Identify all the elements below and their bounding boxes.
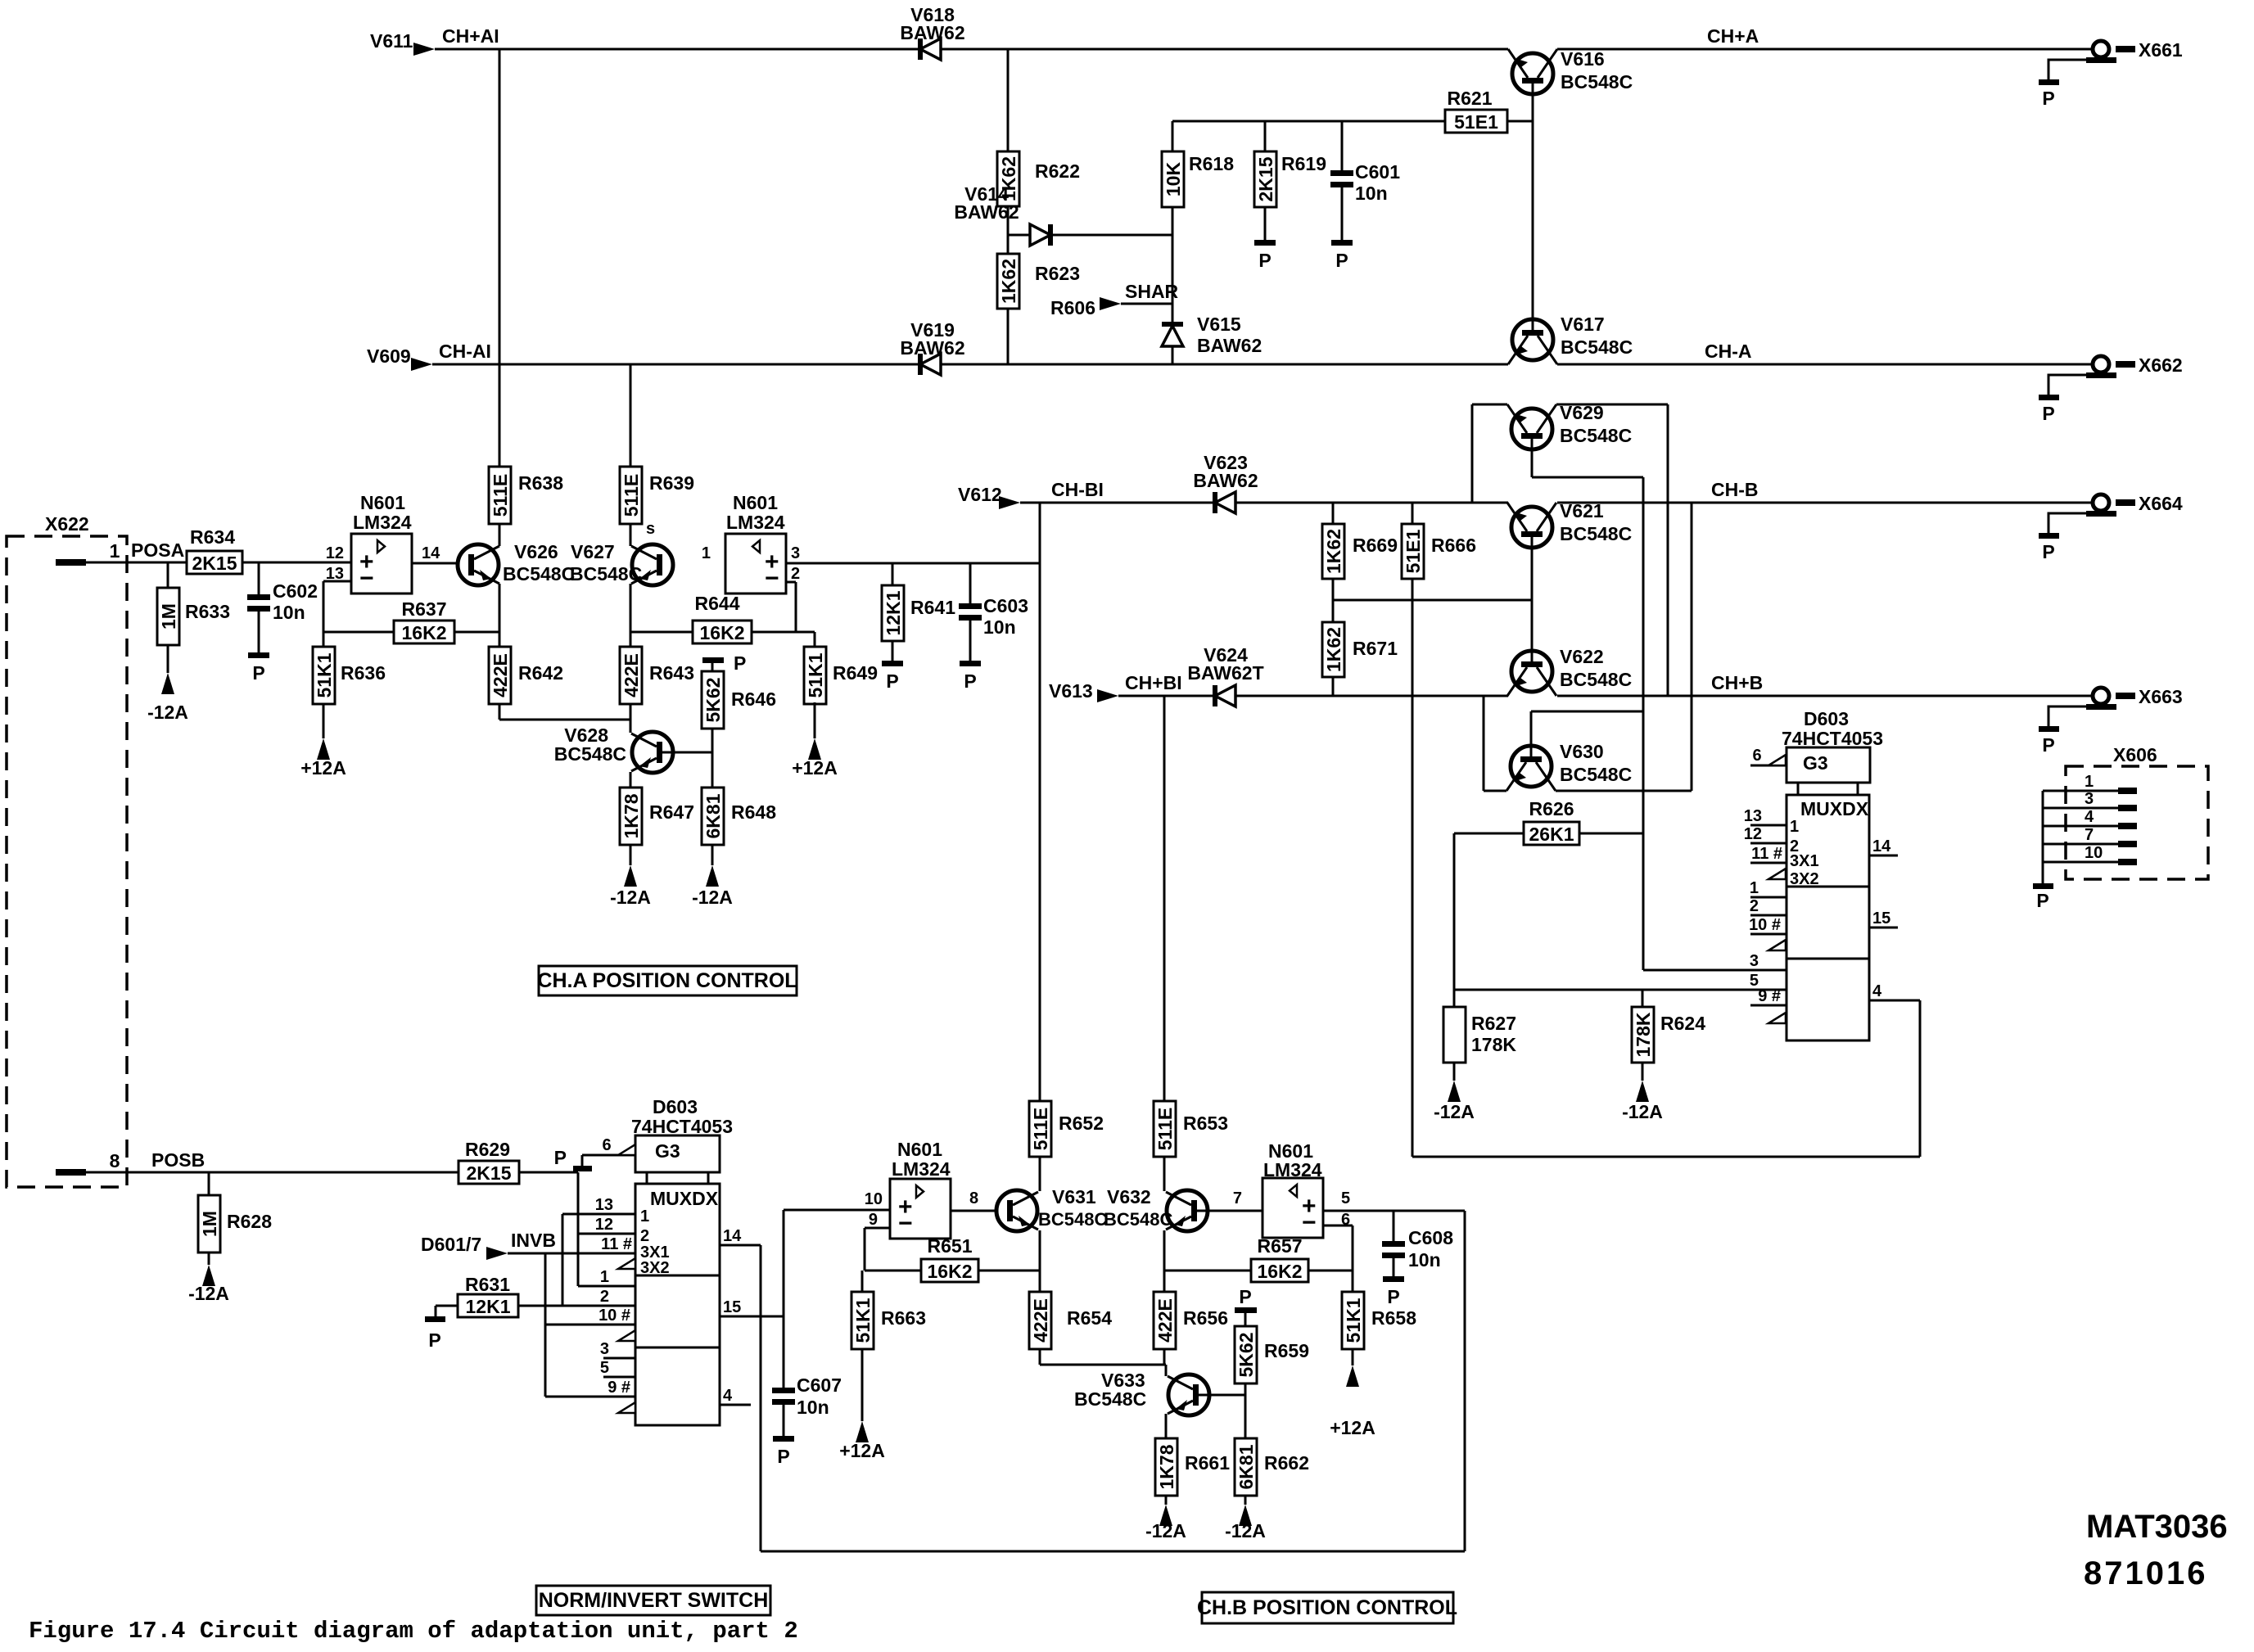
wire output 8 bbox=[951, 1210, 996, 1212]
wire bbox=[242, 562, 351, 564]
wire V631 emitter bbox=[1039, 1230, 1041, 1271]
svg-text:3X2: 3X2 bbox=[640, 1259, 670, 1277]
svg-text:R644: R644 bbox=[695, 593, 740, 614]
pin 13 bbox=[1750, 824, 1786, 827]
pin 9 bbox=[1750, 1004, 1786, 1007]
wire big loop bottom bbox=[1412, 1156, 1920, 1158]
svg-text:N601: N601 bbox=[733, 492, 778, 513]
resistor R662 6K81 bbox=[1235, 1438, 1257, 1496]
wire bbox=[1172, 346, 1174, 364]
power -12A bbox=[202, 1265, 215, 1286]
power -12A bbox=[1239, 1505, 1252, 1526]
svg-text:511E: 511E bbox=[490, 474, 511, 517]
power +12A bbox=[1346, 1365, 1359, 1387]
connector X664 bbox=[2093, 494, 2109, 511]
svg-text:CH+AI: CH+AI bbox=[442, 25, 499, 47]
svg-text:P: P bbox=[2042, 734, 2054, 756]
wire INVB to pin 11 bbox=[508, 1253, 635, 1255]
wire V632 base to op-amp pin 7 bbox=[1191, 1210, 1263, 1212]
resistor R661 1K78 bbox=[1155, 1438, 1177, 1496]
resistor R642 422E bbox=[489, 647, 511, 704]
svg-text:−: − bbox=[898, 1210, 913, 1237]
svg-text:12: 12 bbox=[595, 1216, 613, 1234]
svg-text:R647: R647 bbox=[649, 801, 694, 823]
svg-text:10 #: 10 # bbox=[1749, 916, 1781, 934]
svg-text:R631: R631 bbox=[465, 1274, 510, 1295]
pin 15 bbox=[1869, 927, 1898, 929]
ground P bbox=[2033, 883, 2053, 889]
svg-text:V609: V609 bbox=[367, 345, 411, 367]
svg-text:R626: R626 bbox=[1529, 798, 1574, 819]
svg-text:BC548C: BC548C bbox=[570, 563, 642, 585]
svg-text:1K78: 1K78 bbox=[1156, 1444, 1177, 1489]
svg-text:51K1: 51K1 bbox=[805, 652, 826, 697]
pin 8 POSB bbox=[56, 1169, 86, 1176]
svg-text:BC548C: BC548C bbox=[1038, 1209, 1107, 1230]
pin 12 bbox=[1750, 842, 1786, 845]
svg-text:R666: R666 bbox=[1431, 535, 1476, 556]
pin 3 X606 bbox=[2043, 807, 2118, 810]
svg-text:R653: R653 bbox=[1183, 1113, 1228, 1134]
svg-text:12: 12 bbox=[326, 544, 344, 562]
svg-text:16K2: 16K2 bbox=[402, 622, 447, 643]
resistor R623 1K62 bbox=[997, 254, 1019, 309]
wire bbox=[499, 704, 501, 720]
svg-text:14: 14 bbox=[723, 1227, 742, 1245]
svg-text:BAW62: BAW62 bbox=[900, 337, 964, 359]
wire V633 emitter bbox=[1165, 1414, 1168, 1438]
pin 1 POSA bbox=[56, 559, 86, 566]
svg-text:BC548C: BC548C bbox=[1560, 425, 1632, 446]
svg-text:10 #: 10 # bbox=[599, 1307, 630, 1325]
svg-text:V627: V627 bbox=[571, 541, 615, 562]
svg-text:V617: V617 bbox=[1561, 314, 1605, 335]
svg-text:3X1: 3X1 bbox=[1790, 852, 1819, 870]
svg-text:-12A: -12A bbox=[188, 1283, 229, 1304]
wire top feedback rail bbox=[1172, 120, 1446, 123]
resistor R653 511E bbox=[1154, 1101, 1176, 1157]
svg-text:2: 2 bbox=[600, 1288, 609, 1306]
svg-text:1: 1 bbox=[2085, 773, 2094, 791]
ground P bbox=[773, 1436, 794, 1442]
svg-text:V630: V630 bbox=[1560, 741, 1604, 762]
ground P bbox=[248, 652, 269, 658]
wire bbox=[1164, 1270, 1251, 1272]
svg-text:V611: V611 bbox=[370, 30, 413, 52]
svg-text:R634: R634 bbox=[190, 526, 235, 548]
svg-text:10: 10 bbox=[865, 1190, 883, 1208]
resistor R633 1M bbox=[167, 562, 169, 588]
wire pin13 bbox=[323, 580, 351, 583]
svg-text:CH+A: CH+A bbox=[1707, 25, 1759, 47]
svg-text:74HCT4053: 74HCT4053 bbox=[631, 1116, 733, 1137]
capacitor C607 10n bbox=[772, 1388, 795, 1393]
svg-text:+12A: +12A bbox=[792, 757, 838, 779]
svg-text:1K62: 1K62 bbox=[998, 259, 1019, 304]
resistor R648 6K81 bbox=[702, 788, 724, 845]
svg-text:BAW62: BAW62 bbox=[1197, 335, 1262, 356]
wire V629 base bbox=[1531, 439, 1534, 477]
svg-text:CH+B: CH+B bbox=[1711, 672, 1763, 693]
svg-text:BAW62T: BAW62T bbox=[1187, 662, 1263, 684]
svg-text:R661: R661 bbox=[1185, 1452, 1230, 1474]
svg-text:422E: 422E bbox=[490, 653, 511, 697]
svg-text:4: 4 bbox=[723, 1387, 733, 1405]
svg-text:P: P bbox=[1387, 1286, 1399, 1307]
svg-text:15: 15 bbox=[1872, 910, 1890, 928]
power -12A bbox=[706, 865, 719, 887]
svg-text:51E1: 51E1 bbox=[1454, 111, 1498, 133]
connector X663 bbox=[2093, 688, 2109, 704]
power -12A bbox=[161, 673, 174, 694]
svg-text:V612: V612 bbox=[958, 484, 1002, 505]
capacitor C601 10n bbox=[1341, 121, 1344, 170]
resistor R639 511E bbox=[620, 467, 642, 524]
wire bbox=[1244, 1383, 1247, 1438]
svg-text:8: 8 bbox=[110, 1150, 120, 1171]
svg-text:14: 14 bbox=[1872, 837, 1891, 855]
transistor V621 BC548C bbox=[1511, 507, 1552, 548]
svg-text:s: s bbox=[646, 520, 655, 538]
svg-text:1M: 1M bbox=[158, 603, 179, 630]
svg-text:R621: R621 bbox=[1448, 88, 1493, 109]
resistor R619 2K15 bbox=[1264, 121, 1267, 151]
transistor V617 BC548C bbox=[1512, 319, 1553, 360]
svg-text:R658: R658 bbox=[1371, 1307, 1416, 1329]
svg-text:R643: R643 bbox=[649, 662, 694, 684]
power +12A bbox=[317, 738, 330, 760]
svg-text:C603: C603 bbox=[983, 595, 1028, 616]
wire bbox=[1332, 579, 1335, 622]
wire bbox=[1341, 186, 1344, 240]
svg-text:LM324: LM324 bbox=[726, 512, 785, 533]
svg-text:C607: C607 bbox=[797, 1374, 842, 1396]
resistor R624 178K bbox=[1642, 990, 1644, 1007]
svg-text:10K: 10K bbox=[1163, 162, 1184, 197]
svg-text:-12A: -12A bbox=[692, 887, 733, 908]
power -12A bbox=[1448, 1081, 1461, 1102]
resistor R636 51K1 bbox=[323, 632, 325, 647]
svg-text:R649: R649 bbox=[833, 662, 878, 684]
svg-text:1M: 1M bbox=[199, 1211, 220, 1237]
svg-text:2K15: 2K15 bbox=[467, 1162, 512, 1184]
svg-text:R624: R624 bbox=[1660, 1013, 1705, 1034]
power -12A bbox=[1159, 1505, 1172, 1526]
wire center branch bbox=[1007, 49, 1010, 151]
svg-text:12K1: 12K1 bbox=[883, 590, 904, 635]
wire pin15 to op-amp c bbox=[783, 1210, 785, 1388]
pin 5 bbox=[603, 1376, 635, 1379]
label CH.B POSITION CONTROL bbox=[1202, 1592, 1453, 1623]
ground P pin6 bbox=[581, 1155, 584, 1166]
resistor R671 1K62 bbox=[1322, 622, 1344, 677]
resistor R649 51K1 bbox=[814, 632, 816, 647]
svg-text:V632: V632 bbox=[1107, 1186, 1151, 1207]
wire pin6 opamp d bbox=[1323, 1225, 1353, 1227]
connector X622 (dashed) bbox=[7, 536, 127, 1187]
svg-text:POSA: POSA bbox=[131, 539, 184, 561]
svg-text:R671: R671 bbox=[1353, 638, 1398, 659]
pin 3 bbox=[603, 1357, 635, 1360]
svg-text:R628: R628 bbox=[227, 1211, 272, 1232]
wire output 5 net bbox=[1323, 1210, 1465, 1212]
svg-text:NORM/INVERT SWITCH: NORM/INVERT SWITCH bbox=[539, 1589, 769, 1612]
svg-text:511E: 511E bbox=[1154, 1108, 1176, 1150]
wire R629 to pins 12/1 bbox=[519, 1171, 578, 1174]
svg-text:16K2: 16K2 bbox=[1258, 1261, 1303, 1282]
svg-text:R629: R629 bbox=[465, 1139, 510, 1160]
resistor R638 511E bbox=[489, 467, 511, 524]
svg-text:P: P bbox=[2036, 890, 2048, 911]
svg-text:V631: V631 bbox=[1052, 1186, 1096, 1207]
svg-text:11 #: 11 # bbox=[1751, 845, 1782, 863]
svg-text:MUXDX: MUXDX bbox=[650, 1188, 719, 1209]
wire base chain down bbox=[1642, 477, 1645, 970]
svg-text:-12A: -12A bbox=[1622, 1101, 1663, 1122]
svg-text:C602: C602 bbox=[273, 580, 318, 602]
resistor R658 51K1 bbox=[1352, 1271, 1354, 1292]
svg-text:R606: R606 bbox=[1050, 297, 1095, 318]
pin 7 X606 bbox=[2043, 843, 2118, 846]
svg-text:CH.A POSITION CONTROL: CH.A POSITION CONTROL bbox=[537, 969, 797, 992]
svg-text:178K: 178K bbox=[1471, 1034, 1516, 1055]
svg-text:5K62: 5K62 bbox=[1235, 1333, 1257, 1378]
svg-text:10: 10 bbox=[2085, 844, 2103, 862]
svg-text:5: 5 bbox=[600, 1359, 609, 1377]
svg-text:X663: X663 bbox=[2139, 686, 2183, 707]
wire bbox=[630, 524, 632, 546]
svg-text:R641: R641 bbox=[910, 597, 955, 618]
svg-text:1: 1 bbox=[702, 544, 711, 562]
svg-text:C608: C608 bbox=[1408, 1227, 1453, 1248]
svg-text:8: 8 bbox=[969, 1189, 978, 1207]
pin 11 bbox=[1750, 862, 1786, 864]
wire V630 base bbox=[1530, 711, 1533, 756]
pin 6 bbox=[582, 1154, 635, 1157]
wire to V614 bbox=[1008, 234, 1030, 237]
svg-text:-12A: -12A bbox=[1434, 1101, 1475, 1122]
wire V629 left to CH-B bbox=[1471, 404, 1474, 503]
svg-text:511E: 511E bbox=[1030, 1108, 1051, 1150]
svg-text:X606: X606 bbox=[2113, 744, 2157, 765]
resistor R628 1M bbox=[208, 1172, 210, 1195]
wire pin5 net bbox=[1453, 833, 1456, 1007]
ground P bbox=[882, 661, 903, 666]
svg-text:5: 5 bbox=[1341, 1189, 1350, 1207]
wire CH+AI rail bbox=[435, 48, 920, 51]
svg-text:N601: N601 bbox=[897, 1139, 942, 1160]
svg-text:12: 12 bbox=[1744, 825, 1762, 843]
resistor R669 1K62 bbox=[1332, 503, 1335, 524]
svg-text:CH-BI: CH-BI bbox=[1051, 479, 1104, 500]
svg-text:13: 13 bbox=[1744, 807, 1762, 825]
svg-text:10n: 10n bbox=[273, 602, 305, 623]
wire bbox=[1332, 677, 1335, 696]
wire bbox=[711, 729, 714, 788]
svg-text:16K2: 16K2 bbox=[928, 1261, 973, 1282]
svg-text:Figure 17.4 Circuit diagram of: Figure 17.4 Circuit diagram of adaptatio… bbox=[29, 1618, 798, 1645]
resistor R659 5K62 bbox=[1235, 1326, 1257, 1383]
resistor R643 422E bbox=[620, 647, 642, 704]
wire V621-V622 base chain bbox=[1531, 537, 1534, 661]
svg-text:BAW62: BAW62 bbox=[1193, 470, 1258, 491]
svg-text:10n: 10n bbox=[1355, 183, 1388, 204]
wire bbox=[323, 631, 394, 634]
svg-text:2: 2 bbox=[791, 565, 800, 583]
wire V630 left to CH+B bbox=[1483, 696, 1485, 791]
svg-text:R633: R633 bbox=[185, 601, 230, 622]
wire CH-AI rail bbox=[432, 363, 920, 366]
resistor R663 51K1 bbox=[861, 1271, 864, 1292]
svg-text:2K15: 2K15 bbox=[1255, 156, 1276, 201]
wire bottom rail bbox=[761, 1550, 1465, 1553]
svg-text:V615: V615 bbox=[1197, 314, 1241, 335]
svg-text:G3: G3 bbox=[1803, 752, 1828, 774]
svg-text:P: P bbox=[1335, 250, 1348, 271]
svg-text:BC548C: BC548C bbox=[1560, 669, 1632, 690]
svg-text:R656: R656 bbox=[1183, 1307, 1228, 1329]
svg-text:X622: X622 bbox=[45, 513, 89, 535]
wire CH+BI rail bbox=[1118, 695, 1215, 697]
connector X606 (dashed) bbox=[2066, 766, 2208, 879]
svg-text:R638: R638 bbox=[518, 472, 563, 494]
svg-text:BC548C: BC548C bbox=[1104, 1209, 1172, 1230]
svg-text:511E: 511E bbox=[621, 474, 642, 517]
wire V629 top rail bbox=[1472, 404, 1507, 406]
transistor V616 BC548C bbox=[1512, 53, 1553, 94]
svg-text:51E1: 51E1 bbox=[1403, 529, 1424, 573]
svg-text:R639: R639 bbox=[649, 472, 694, 494]
svg-text:+12A: +12A bbox=[839, 1440, 885, 1461]
wire V632 emitter bbox=[1163, 1230, 1166, 1292]
ground P bbox=[1383, 1276, 1404, 1282]
svg-text:3: 3 bbox=[791, 544, 800, 562]
transistor V630 BC548C bbox=[1511, 746, 1552, 787]
svg-text:P: P bbox=[734, 652, 746, 674]
svg-text:3: 3 bbox=[600, 1340, 609, 1358]
svg-text:1: 1 bbox=[110, 540, 120, 562]
wire V614 to R618 branch bbox=[1050, 234, 1173, 237]
resistor R618 10K bbox=[1172, 121, 1174, 151]
wire pin3 net bbox=[1643, 969, 1786, 972]
svg-text:1: 1 bbox=[600, 1268, 609, 1286]
resistor R641 12K1 bbox=[892, 563, 894, 585]
wire R631 right bbox=[518, 1305, 562, 1307]
svg-text:1K78: 1K78 bbox=[621, 793, 642, 838]
wire V616 base down to V617 bbox=[1532, 84, 1534, 330]
svg-text:−: − bbox=[765, 565, 779, 592]
pin 10 bbox=[545, 1324, 635, 1326]
wire right edge of CH.B block bbox=[1464, 1211, 1466, 1551]
wire CH+AI branch down bbox=[499, 49, 501, 467]
resistor R646 5K62 bbox=[702, 671, 724, 729]
svg-text:51K1: 51K1 bbox=[1343, 1298, 1364, 1343]
svg-text:CH+BI: CH+BI bbox=[1125, 672, 1182, 693]
wire pin2 bbox=[786, 581, 796, 584]
svg-text:INVB: INVB bbox=[511, 1230, 556, 1251]
wire V630 bottom rail bbox=[1484, 790, 1506, 792]
resistor R647 1K78 bbox=[620, 788, 642, 845]
svg-text:P: P bbox=[554, 1147, 567, 1168]
connector X662 bbox=[2093, 356, 2109, 372]
svg-text:BC548C: BC548C bbox=[1561, 336, 1633, 358]
svg-text:V616: V616 bbox=[1561, 48, 1605, 70]
wire bbox=[1264, 207, 1267, 240]
svg-text:9 #: 9 # bbox=[608, 1379, 630, 1397]
svg-text:BC548C: BC548C bbox=[1560, 764, 1632, 785]
svg-text:10n: 10n bbox=[797, 1397, 829, 1418]
svg-text:+12A: +12A bbox=[300, 757, 346, 779]
svg-text:BC548C: BC548C bbox=[503, 563, 575, 585]
svg-text:1: 1 bbox=[1750, 879, 1759, 897]
wire bbox=[630, 704, 632, 733]
svg-text:-12A: -12A bbox=[1145, 1520, 1186, 1541]
transistor V629 BC548C bbox=[1511, 408, 1552, 449]
svg-text:P: P bbox=[2042, 403, 2054, 424]
svg-text:P: P bbox=[1239, 1286, 1251, 1307]
capacitor C602 10n bbox=[258, 562, 260, 594]
svg-text:R651: R651 bbox=[928, 1235, 973, 1257]
resistor R666 51E1 bbox=[1412, 503, 1414, 524]
svg-text:422E: 422E bbox=[621, 653, 642, 697]
resistor R654 422E bbox=[1039, 1271, 1041, 1292]
wire select bundle bbox=[544, 1253, 547, 1397]
svg-text:MAT3036: MAT3036 bbox=[2086, 1509, 2228, 1545]
svg-text:R662: R662 bbox=[1264, 1452, 1309, 1474]
svg-text:P: P bbox=[1258, 250, 1271, 271]
wire V633 base bbox=[1193, 1394, 1245, 1397]
svg-text:3X2: 3X2 bbox=[1790, 870, 1819, 888]
pin 6 bbox=[1750, 765, 1786, 767]
svg-text:BAW62: BAW62 bbox=[900, 22, 964, 43]
svg-text:1K62: 1K62 bbox=[1323, 627, 1344, 672]
svg-text:G3: G3 bbox=[655, 1140, 680, 1162]
svg-text:CH-A: CH-A bbox=[1705, 341, 1752, 362]
svg-text:P: P bbox=[2042, 541, 2054, 562]
svg-text:V613: V613 bbox=[1049, 680, 1093, 702]
svg-text:R646: R646 bbox=[731, 688, 776, 710]
wire bbox=[1163, 1157, 1166, 1191]
wire V630 right to CH-B bbox=[1691, 503, 1693, 791]
svg-text:6K81: 6K81 bbox=[1235, 1444, 1257, 1489]
pin 2 bbox=[562, 1305, 635, 1307]
svg-text:-12A: -12A bbox=[610, 887, 651, 908]
wire V629 right to CH+B bbox=[1667, 404, 1669, 696]
svg-text:BC548C: BC548C bbox=[1074, 1388, 1146, 1410]
wire R666 down (big loop) bbox=[1412, 579, 1414, 1157]
svg-text:R642: R642 bbox=[518, 662, 563, 684]
svg-text:R636: R636 bbox=[341, 662, 386, 684]
svg-text:R659: R659 bbox=[1264, 1340, 1309, 1361]
pin 2 bbox=[1750, 914, 1786, 917]
svg-text:4: 4 bbox=[1872, 982, 1882, 1000]
svg-text:V621: V621 bbox=[1560, 500, 1604, 521]
svg-text:N601: N601 bbox=[360, 492, 405, 513]
svg-text:R618: R618 bbox=[1189, 153, 1234, 174]
svg-text:-12A: -12A bbox=[1225, 1520, 1266, 1541]
wire pin14 down to bottom rail bbox=[760, 1245, 762, 1551]
wire V628 base bbox=[657, 752, 712, 754]
pin 1 bbox=[1750, 896, 1786, 899]
svg-text:P: P bbox=[964, 670, 976, 692]
transistor V632 BC548C bbox=[1167, 1190, 1208, 1231]
svg-text:2: 2 bbox=[1750, 897, 1759, 915]
svg-text:LM324: LM324 bbox=[892, 1158, 951, 1180]
wire bbox=[499, 524, 501, 546]
resistor R622 1K62 bbox=[997, 151, 1019, 206]
svg-text:9 #: 9 # bbox=[1758, 987, 1781, 1005]
svg-text:3: 3 bbox=[1750, 952, 1759, 970]
